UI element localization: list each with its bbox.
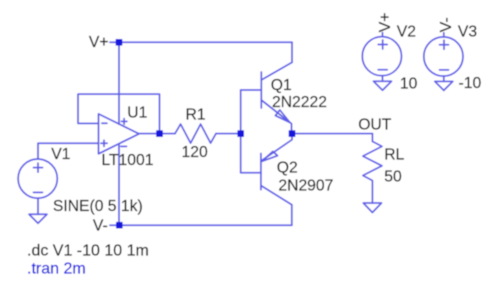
ground below RL: [363, 203, 381, 213]
node junction OUT: [289, 130, 296, 137]
wire Q1 collector drop: [291, 42, 293, 62]
svg-text:10: 10: [400, 75, 418, 92]
svg-text:Q2: Q2: [277, 160, 298, 177]
wire RL top drop: [371, 134, 373, 142]
transistor Q2: [241, 134, 292, 205]
svg-text:.tran 2m: .tran 2m: [27, 261, 86, 278]
wire op-amp V+ supply: [118, 42, 120, 124]
transistor Q1: [241, 62, 292, 133]
ground below V1: [29, 214, 47, 223]
ground below V2: [374, 81, 392, 90]
node junction base: [237, 130, 244, 137]
wire Q2 collector drop: [291, 205, 293, 225]
node junction V-: [116, 222, 123, 229]
svg-text:U1: U1: [127, 104, 147, 121]
resistor R1: [175, 124, 216, 143]
wire op-amp output: [139, 133, 175, 135]
wire feedback loop: [78, 94, 160, 134]
svg-text:Q1: Q1: [271, 77, 292, 94]
wire op-amp V- supply: [118, 144, 120, 225]
svg-text:2N2907: 2N2907: [278, 177, 333, 194]
wire top rail V+: [110, 41, 292, 43]
wire V1 to noninverting input: [38, 143, 99, 158]
voltage source V1: [18, 159, 57, 214]
node junction V+: [116, 39, 123, 46]
svg-text:SINE(0 5 1k): SINE(0 5 1k): [53, 198, 143, 215]
wire R1 right lead: [216, 133, 241, 135]
wire base join vertical: [240, 90, 242, 173]
svg-text:50: 50: [384, 169, 402, 186]
svg-text:V2: V2: [397, 23, 416, 40]
voltage source V3: [424, 33, 463, 82]
wire bottom rail V-: [110, 224, 292, 226]
svg-text:RL: RL: [384, 147, 404, 164]
svg-text:OUT: OUT: [358, 117, 392, 134]
svg-text:R1: R1: [186, 107, 206, 124]
ground below V3: [435, 81, 453, 90]
svg-text:V-: V-: [93, 217, 108, 234]
svg-text:V-: V-: [438, 17, 455, 32]
node junction op-amp output: [156, 130, 163, 137]
svg-text:.dc V1 -10 10 1m: .dc V1 -10 10 1m: [27, 243, 149, 260]
svg-text:V1: V1: [51, 146, 70, 163]
svg-text:V+: V+: [377, 12, 394, 32]
svg-text:V3: V3: [458, 23, 477, 40]
voltage source V2: [362, 33, 401, 82]
svg-text:2N2222: 2N2222: [272, 94, 327, 111]
svg-text:LT1001: LT1001: [101, 152, 153, 169]
wire output to RL: [292, 133, 372, 135]
svg-text:120: 120: [182, 144, 208, 161]
svg-text:-10: -10: [459, 75, 482, 92]
svg-text:V+: V+: [89, 34, 109, 51]
resistor RL: [363, 141, 382, 203]
op-amp U1 LT1001: [99, 114, 140, 154]
